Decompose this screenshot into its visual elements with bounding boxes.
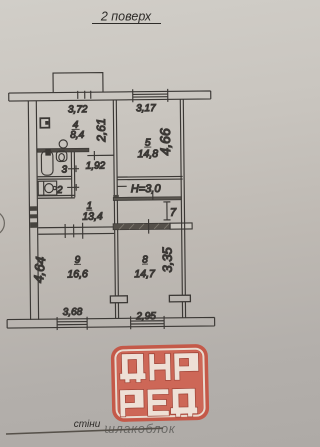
svg-text:3,68: 3,68 [63, 307, 83, 318]
svg-text:3,35: 3,35 [160, 246, 175, 272]
room 5 bottom wall [117, 176, 183, 179]
svg-text:7: 7 [170, 207, 177, 219]
hall/room9 wall left segment (white double) [38, 227, 114, 234]
right exterior wall [180, 99, 185, 295]
bottom window right [131, 316, 165, 329]
watermark logo ДНР РЕД [111, 344, 210, 422]
svg-text:3,72: 3,72 [68, 104, 88, 115]
vent shaft (black square) [45, 149, 51, 156]
hall bottom wall right segment (hatched dark) [113, 223, 170, 230]
corridor / closet top wall [113, 197, 181, 201]
junction stub [113, 195, 119, 201]
svg-text:2: 2 [56, 185, 63, 196]
svg-text:2,95: 2,95 [135, 311, 156, 322]
wall between rooms 9 and 8 [115, 230, 119, 296]
floor plan (tilted slightly like the photo) [0, 71, 215, 330]
box marker on wall 9|8 [110, 296, 127, 303]
balcony top [53, 73, 103, 93]
left wall hatch marks [30, 206, 37, 228]
wall between toilet and bath [38, 176, 72, 179]
door leaf at room 5 wall [117, 185, 126, 187]
kitchen / toilet shared wall [37, 148, 89, 152]
leader line room 2 [67, 184, 79, 191]
hall wall right end stub [170, 223, 192, 229]
kitchen sink [59, 140, 67, 148]
svg-text:4,64: 4,64 [31, 256, 48, 284]
svg-text:2,61: 2,61 [94, 118, 108, 143]
toilet room right wall [71, 152, 74, 198]
letter Е row2 [147, 389, 169, 416]
corridor dimension line 1,92 [87, 151, 114, 160]
svg-text:14,7: 14,7 [134, 268, 156, 280]
letter Д row1 [119, 353, 146, 383]
svg-text:8,4: 8,4 [70, 130, 84, 141]
svg-text:стіни: стіни [74, 419, 101, 430]
svg-text:3: 3 [61, 164, 67, 175]
closet 7 dimension line [163, 202, 170, 220]
svg-text:14,8: 14,8 [138, 148, 159, 160]
bottom window left [57, 317, 87, 330]
svg-text:16,6: 16,6 [67, 268, 88, 280]
top exterior wall band [9, 91, 211, 101]
tick under H=3,0 [152, 192, 154, 200]
bottom exterior wall [7, 317, 215, 328]
toilet sink [56, 151, 67, 162]
bath sink [38, 181, 57, 195]
wall between corridor and room 5 [113, 100, 117, 226]
window in top wall [133, 89, 168, 102]
leader line room 3 [68, 165, 79, 172]
bath room bottom wall [38, 195, 75, 198]
balcony door ticks [78, 91, 91, 99]
letter Н row1 [149, 353, 171, 380]
letter Д row2 [170, 388, 198, 417]
door ticks on hall bottom wall [65, 219, 149, 239]
letter Р row1 [174, 353, 199, 381]
seal arc at left edge [0, 211, 5, 236]
svg-text:3,17: 3,17 [136, 103, 156, 114]
box marker on right wall [169, 295, 190, 302]
letter Р row2 [120, 389, 145, 417]
title: 2 поверх [92, 10, 161, 24]
svg-text:13,4: 13,4 [82, 211, 103, 223]
svg-text:H=3,0: H=3,0 [131, 183, 162, 195]
toilet bowl [41, 151, 53, 175]
svg-text::: : [104, 423, 107, 434]
left exterior wall [28, 101, 38, 320]
svg-text:2 поверх: 2 поверх [100, 10, 152, 24]
svg-text:1,92: 1,92 [86, 161, 106, 172]
bottom underline [6, 428, 163, 434]
svg-text:4,66: 4,66 [157, 128, 173, 156]
kitchen stove symbol [40, 118, 49, 128]
